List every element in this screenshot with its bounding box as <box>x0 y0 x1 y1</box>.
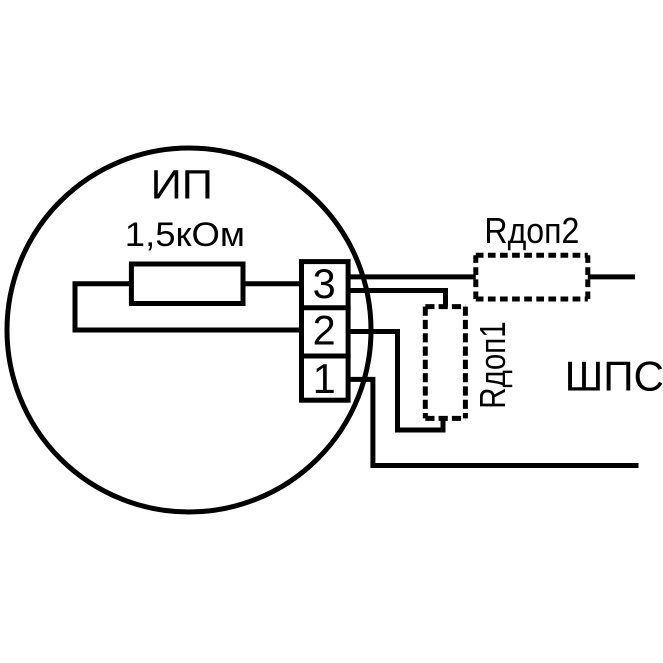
svg-text:ИП: ИП <box>151 162 213 208</box>
svg-text:3: 3 <box>313 260 336 307</box>
svg-text:1: 1 <box>313 355 336 402</box>
svg-text:ШПС: ШПС <box>565 353 663 400</box>
svg-text:1,5кОм: 1,5кОм <box>125 216 245 254</box>
svg-text:Rдоп1: Rдоп1 <box>472 321 513 408</box>
svg-text:2: 2 <box>313 306 336 353</box>
svg-text:Rдоп2: Rдоп2 <box>484 210 579 251</box>
